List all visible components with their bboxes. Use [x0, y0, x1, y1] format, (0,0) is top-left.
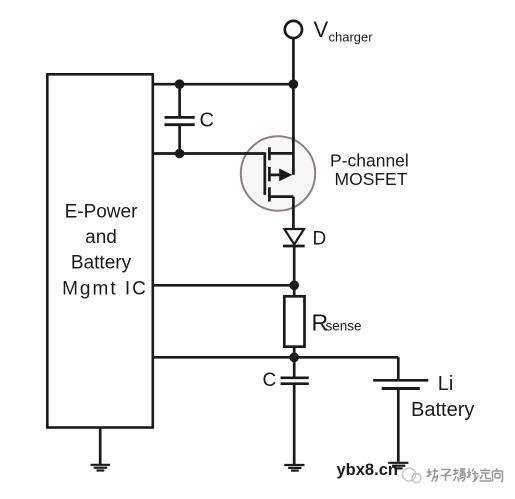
transistor Q1: P-channel MOSFET [241, 136, 315, 229]
wire: Vcharger down to MOSFET source (through top-rail junction) [292, 38, 295, 175]
svg-text:C: C [200, 110, 214, 132]
ground (under battery) [388, 463, 408, 469]
node: junction dot bottom rail [289, 353, 299, 363]
terminal Vcharger [285, 17, 373, 45]
ground (under C2) [284, 465, 304, 471]
svg-text:P-channel: P-channel [330, 151, 409, 171]
svg-text:charger: charger [329, 30, 374, 45]
svg-text:and: and [85, 227, 117, 248]
IC block U1: E-Power and Battery Mgmt IC [47, 74, 153, 427]
wire: resistor bottom to bottom rail [293, 347, 296, 358]
svg-text:D: D [313, 229, 327, 250]
ground (under IC) [91, 465, 111, 471]
capacitor C1 (top, between rails) [165, 84, 214, 153]
capacitor C2 (bottom) [263, 357, 309, 464]
wire: battery branch down [397, 357, 400, 379]
svg-text:Battery: Battery [411, 399, 474, 421]
diode D1 [283, 229, 326, 250]
svg-text:Mgmt IC: Mgmt IC [62, 279, 148, 300]
battery BT1: Li Battery [373, 373, 474, 462]
wire: top rail from IC to main vertical [154, 83, 294, 86]
watermark logo: two grey circles [403, 468, 422, 483]
node: junction dot gate rail / cap C1 bottom [175, 149, 185, 159]
svg-text:V: V [314, 17, 329, 42]
svg-text:sense: sense [326, 319, 362, 334]
node: junction dot top rail / cap C1 [175, 79, 185, 89]
wire: IC ground stub [99, 428, 102, 465]
wire: diode cathode down to sense junction [293, 246, 296, 296]
wire: gate rail from IC to MOSFET gate [154, 152, 265, 155]
wire: bottom rail from IC to battery branch [154, 356, 399, 359]
node: junction dot top rail / main vertical [289, 79, 299, 89]
resistor Rsense [284, 296, 361, 346]
svg-text:E-Power: E-Power [65, 201, 139, 222]
svg-text:MOSFET: MOSFET [335, 169, 408, 189]
node: junction dot sense rail [289, 281, 299, 291]
label: P-channel MOSFET [330, 151, 409, 189]
svg-text:C: C [263, 370, 277, 391]
svg-text:Battery: Battery [71, 253, 132, 274]
svg-text:ybx8.cn: ybx8.cn [337, 461, 398, 479]
watermark: grey CJK-style text blocks [427, 469, 503, 482]
wire: sense rail from IC to junction [154, 284, 295, 287]
svg-text:Li: Li [438, 373, 454, 395]
